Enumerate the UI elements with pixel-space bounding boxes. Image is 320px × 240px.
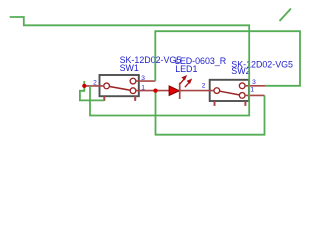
wire net B: SW1 pin3 up over to SW2 pin3 xyxy=(155,31,300,86)
switch SW1 body xyxy=(100,75,139,96)
SW2 mount pin left xyxy=(214,101,216,106)
SW1 pin 2 circle xyxy=(104,83,110,89)
SW2 pin 2 stub (wire from LED) xyxy=(180,90,214,92)
SW1 mount pin right xyxy=(134,96,136,101)
SW2 mount pin right xyxy=(244,101,246,106)
SW1 pin 2 stub xyxy=(84,85,104,87)
junction dot at SW1 pin2 node xyxy=(82,84,86,88)
svg-text:SW1: SW1 xyxy=(120,63,139,73)
switch SW2 body xyxy=(210,80,249,101)
SW2 pin 3 stub xyxy=(245,85,265,87)
wire diagonal G top-right xyxy=(280,9,292,22)
junction dot at LED anode node xyxy=(153,88,157,92)
svg-text:3: 3 xyxy=(252,79,256,86)
wire elbow E: junction to SW1 mount pin xyxy=(80,86,104,101)
svg-text:3: 3 xyxy=(141,75,145,82)
svg-text:2: 2 xyxy=(202,83,206,90)
SW2 pin 1 circle xyxy=(239,93,245,99)
wire net A: top-left long wire down to bottom, to SW1 pin2 net xyxy=(10,17,250,116)
svg-text:SW2: SW2 xyxy=(231,66,250,76)
SW1 lever xyxy=(110,87,131,91)
SW2 pin 3 circle xyxy=(239,83,245,89)
LED1 light arrow 1 xyxy=(180,76,186,84)
LED1 light arrow 2 xyxy=(185,80,191,88)
SW1 pin 1 stub / wire to LED xyxy=(136,90,170,92)
wire net C: LED anode node down around to SW2 pin1 xyxy=(156,91,265,135)
svg-text:1: 1 xyxy=(141,85,145,92)
svg-text:2: 2 xyxy=(93,80,97,87)
SW1 pin 3 circle xyxy=(130,78,136,84)
SW1 pin 3 stub xyxy=(136,80,156,82)
SW2 pin 1 stub xyxy=(245,94,265,96)
svg-text:1: 1 xyxy=(250,86,254,93)
LED1 cathode bar xyxy=(179,83,181,99)
SW2 lever xyxy=(220,91,240,95)
SW1 mount pin left xyxy=(103,96,105,101)
svg-text:LED1: LED1 xyxy=(175,64,197,74)
SW2 pin 2 circle xyxy=(214,88,220,94)
wire stub F above junction xyxy=(83,81,85,86)
LED LED1 triangle xyxy=(169,86,179,95)
SW1 pin 1 circle xyxy=(130,88,136,94)
